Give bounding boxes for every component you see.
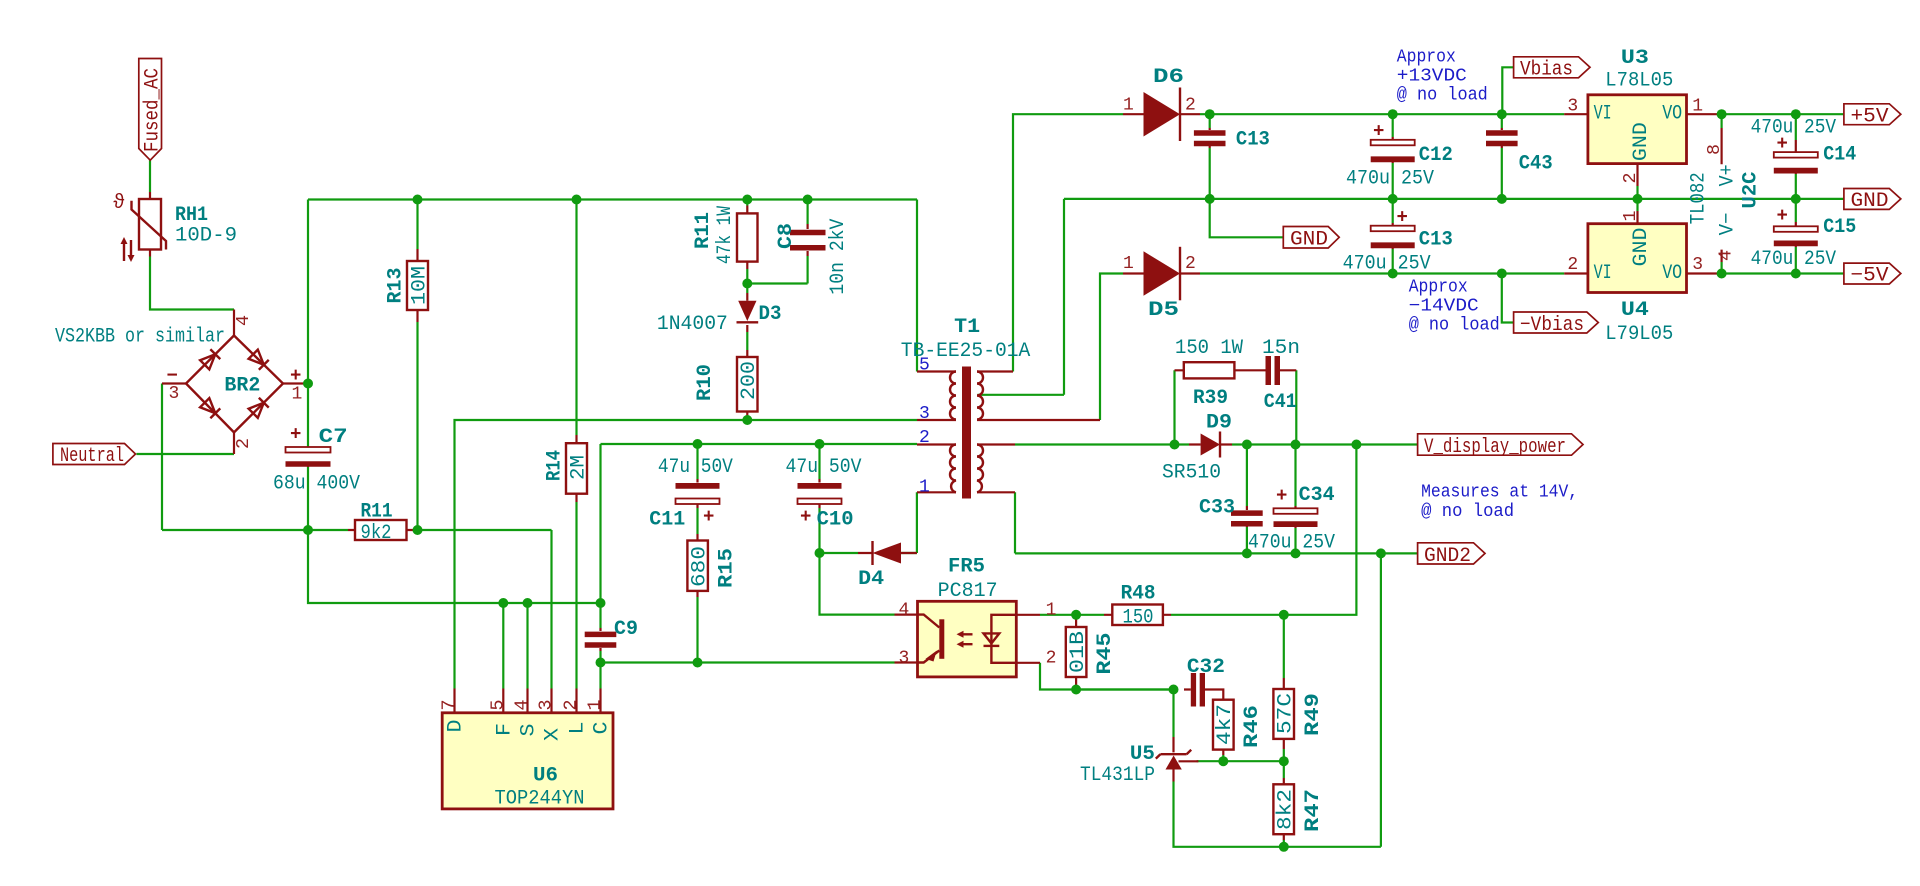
wire C33 leads xyxy=(1246,445,1248,554)
svg-text:L78L05: L78L05 xyxy=(1605,69,1673,92)
resistor R47 8k2 xyxy=(1273,778,1325,840)
resistor R13 10M xyxy=(385,249,432,322)
wire U3 GND pin to rail xyxy=(1636,186,1638,199)
capacitor C13b 470u 25V xyxy=(1343,207,1453,276)
regulator U4 L79L05 xyxy=(1564,211,1717,347)
junctions GND2 rail xyxy=(1242,548,1252,558)
svg-text:R15: R15 xyxy=(716,548,739,588)
junctions top bus xyxy=(413,195,423,205)
svg-text:R10: R10 xyxy=(694,364,717,401)
svg-text:C8: C8 xyxy=(775,223,798,249)
svg-text:TOP244YN: TOP244YN xyxy=(495,788,585,811)
svg-text:R49: R49 xyxy=(1302,693,1325,736)
wire R10 bottom to T1 pin3 row xyxy=(746,418,748,420)
svg-text:C10: C10 xyxy=(817,509,854,532)
svg-text:2: 2 xyxy=(561,700,581,711)
wire D4 node down to FR5 pin4 xyxy=(820,553,895,615)
svg-text:U6: U6 xyxy=(533,765,558,788)
resistor R39 150 1W xyxy=(1175,337,1266,410)
svg-text:1: 1 xyxy=(1692,97,1703,117)
diode D5 xyxy=(1123,247,1200,322)
svg-text:D4: D4 xyxy=(858,568,884,591)
global label GND2 xyxy=(1418,543,1485,568)
wire Vbias branch xyxy=(1502,67,1513,114)
note Approx -14VDC xyxy=(1409,278,1500,336)
svg-text:470u 25V: 470u 25V xyxy=(1343,252,1431,275)
diode D9 SR510 xyxy=(1162,412,1232,485)
wire -Vbias branch xyxy=(1502,274,1514,323)
svg-text:47k 1W: 47k 1W xyxy=(714,206,737,264)
svg-text:+: + xyxy=(1276,485,1287,507)
svg-text:2: 2 xyxy=(234,438,254,449)
svg-text:+: + xyxy=(290,365,301,387)
svg-text:+: + xyxy=(703,506,714,528)
svg-text:1N4007: 1N4007 xyxy=(657,313,728,336)
wire U2C pin8 stub xyxy=(1720,114,1722,128)
wire U6 pin F riser xyxy=(502,603,504,689)
svg-text:2: 2 xyxy=(1185,254,1196,274)
junctions GND rail xyxy=(1205,194,1215,204)
svg-text:C13: C13 xyxy=(1419,229,1453,252)
svg-text:C13: C13 xyxy=(1236,129,1270,152)
wire U2C pin4 stub xyxy=(1720,262,1722,274)
svg-text:+13VDC: +13VDC xyxy=(1397,67,1467,87)
svg-text:3: 3 xyxy=(169,384,180,404)
junctions V_display row xyxy=(1170,440,1180,450)
global label +5V xyxy=(1844,104,1901,129)
wire C9 top lead xyxy=(599,444,601,628)
capacitor C34 470u 25V xyxy=(1248,484,1335,554)
svg-text:L: L xyxy=(567,722,590,735)
wire R14 riser x=576.5 from bus to R14 and to U6 pin L xyxy=(575,200,577,689)
junctions y=603 row xyxy=(498,598,508,608)
svg-text:VO: VO xyxy=(1662,103,1682,126)
svg-text:V_display_power: V_display_power xyxy=(1424,436,1566,459)
wire T1 pin to V_display row y=444.5 xyxy=(1015,443,1418,445)
svg-text:8: 8 xyxy=(1705,144,1725,155)
global label V_display_power xyxy=(1418,434,1583,459)
svg-text:1: 1 xyxy=(1046,601,1057,621)
svg-text:2M: 2M xyxy=(568,455,591,480)
wire R39 branch riser xyxy=(1173,370,1175,444)
svg-text:−Vbias: −Vbias xyxy=(1520,314,1584,337)
svg-text:F: F xyxy=(493,723,516,736)
wire R47 top lead xyxy=(1283,761,1285,778)
svg-text:C: C xyxy=(591,722,614,735)
junction D3 node xyxy=(742,279,752,289)
svg-text:C11: C11 xyxy=(649,509,685,532)
wire T1 pin3 row y=420 and riser to U6 pin D xyxy=(455,420,918,689)
svg-text:C15: C15 xyxy=(1823,216,1856,239)
svg-text:1: 1 xyxy=(1123,254,1134,274)
wire y=662.5 row C9 to FR5 pin3 xyxy=(601,661,895,663)
svg-text:+: + xyxy=(800,506,811,528)
svg-text:01B: 01B xyxy=(1067,631,1090,673)
svg-text:PC817: PC817 xyxy=(938,580,998,603)
svg-text:R48: R48 xyxy=(1121,583,1156,606)
svg-text:D6: D6 xyxy=(1153,66,1184,89)
wire C14 leads xyxy=(1795,114,1797,199)
svg-text:Measures at 14V,: Measures at 14V, xyxy=(1421,483,1578,503)
svg-text:470u 25V: 470u 25V xyxy=(1751,117,1837,140)
wire y=603 row from C7 node to C9 xyxy=(308,530,601,603)
svg-text:C32: C32 xyxy=(1187,656,1225,679)
shunt regulator U5 TL431LP xyxy=(1080,737,1198,787)
svg-text:TL082: TL082 xyxy=(1688,172,1711,224)
svg-text:7: 7 xyxy=(440,700,460,711)
svg-text:2: 2 xyxy=(1567,255,1578,275)
svg-text:4: 4 xyxy=(899,601,910,621)
svg-text:Vbias: Vbias xyxy=(1520,59,1573,82)
wire FR5 pin2 down to y=689.5 row xyxy=(1040,663,1174,690)
wire FR5 pin1 to R48 xyxy=(1040,614,1104,616)
wire C11 leads xyxy=(696,444,698,534)
capacitor C41 15n xyxy=(1262,337,1300,414)
svg-text:4: 4 xyxy=(1717,250,1737,261)
resistor R11 47k 1W xyxy=(692,206,758,270)
wire C13b leads xyxy=(1392,199,1394,274)
wire D6 cathode to +13V rail into U3 VI xyxy=(1200,113,1564,115)
resistor R49 57C xyxy=(1273,678,1325,749)
svg-text:4: 4 xyxy=(234,315,254,326)
capacitor C9 xyxy=(585,618,638,651)
svg-text:10D-9: 10D-9 xyxy=(175,225,237,248)
capacitor C7 68u 400V xyxy=(273,424,360,496)
wire C32/TL431 cathode riser xyxy=(1172,690,1174,738)
global label Fused_AC xyxy=(139,59,165,161)
capacitor C10 47u 50V xyxy=(786,456,862,532)
wire GND mid label branch xyxy=(1210,199,1284,237)
junction R47 bottom row xyxy=(1279,842,1289,852)
svg-text:+5V: +5V xyxy=(1851,106,1889,129)
IC U6 TOP244YN xyxy=(440,689,614,811)
svg-text:1: 1 xyxy=(1123,96,1134,116)
svg-text:200: 200 xyxy=(738,361,761,400)
resistor R48 150 xyxy=(1104,583,1171,630)
svg-text:2: 2 xyxy=(919,428,930,448)
capacitor C11 47u 50V xyxy=(649,456,733,532)
svg-text:C41: C41 xyxy=(1264,391,1297,414)
svg-text:47u 50V: 47u 50V xyxy=(658,456,733,479)
svg-text:15n: 15n xyxy=(1262,337,1300,360)
wire Neutral to BR2 pin2 xyxy=(137,453,235,455)
svg-text:X: X xyxy=(542,728,565,741)
wire top primary bus y=199 xyxy=(308,198,917,200)
svg-text:S: S xyxy=(518,724,541,737)
svg-text:TB-EE25-01A: TB-EE25-01A xyxy=(901,340,1031,363)
svg-text:2: 2 xyxy=(1046,649,1057,669)
resistor R11 9k2 xyxy=(348,501,413,546)
svg-text:SR510: SR510 xyxy=(1162,461,1221,484)
capacitor C43 xyxy=(1486,128,1553,175)
wire C12 leads xyxy=(1392,114,1394,199)
svg-text:3: 3 xyxy=(919,404,930,424)
svg-text:U2C: U2C xyxy=(1740,172,1763,209)
global label -Vbias xyxy=(1514,312,1599,337)
svg-text:ϑ: ϑ xyxy=(113,192,125,215)
wire U6 pin S riser xyxy=(526,603,528,689)
svg-text:R45: R45 xyxy=(1094,633,1117,675)
transformer T1 TB-EE25-01A xyxy=(901,316,1100,499)
svg-text:4k7: 4k7 xyxy=(1214,704,1237,745)
junctions -14V rail xyxy=(1388,269,1398,279)
svg-text:@ no load: @ no load xyxy=(1409,316,1500,336)
global label Vbias xyxy=(1514,57,1590,82)
svg-text:VI: VI xyxy=(1594,103,1612,126)
svg-text:9k2: 9k2 xyxy=(361,522,392,545)
svg-text:47u 50V: 47u 50V xyxy=(786,456,862,479)
svg-text:T1: T1 xyxy=(954,316,980,339)
svg-text:470u 25V: 470u 25V xyxy=(1751,248,1837,271)
junctions -5V rail xyxy=(1717,269,1727,279)
svg-text:U3: U3 xyxy=(1621,47,1649,70)
wire bus to T1 pin5 riser xyxy=(916,200,918,372)
svg-text:3: 3 xyxy=(537,700,557,711)
svg-text:C7: C7 xyxy=(319,426,348,449)
capacitor C12 470u 25V xyxy=(1346,121,1453,191)
wire riser to U6 pin X xyxy=(550,530,552,689)
junctions T1 pin2 row xyxy=(693,439,703,449)
wire R15 bottom lead xyxy=(696,597,698,663)
junction R10 bottom xyxy=(742,415,752,425)
svg-text:D: D xyxy=(445,720,468,733)
svg-text:D3: D3 xyxy=(759,303,782,326)
global label GND mid xyxy=(1283,227,1339,252)
svg-text:@ no load: @ no load xyxy=(1397,86,1488,106)
svg-text:D9: D9 xyxy=(1206,412,1232,435)
svg-text:V+: V+ xyxy=(1717,164,1740,186)
svg-text:R13: R13 xyxy=(385,268,408,304)
svg-text:@ no load: @ no load xyxy=(1421,502,1514,522)
wire T1 pin2 row y=444 xyxy=(601,443,918,445)
svg-text:470u 25V: 470u 25V xyxy=(1346,168,1434,191)
capacitor C14 470u 25V xyxy=(1751,117,1857,174)
global label Neutral xyxy=(53,444,136,469)
wire R11 9k2 row y=530 xyxy=(162,529,552,531)
svg-text:5: 5 xyxy=(488,700,508,711)
svg-text:2: 2 xyxy=(1621,173,1641,184)
svg-text:1: 1 xyxy=(1621,211,1641,222)
junctions TL431 ref row xyxy=(1218,756,1228,766)
svg-text:C12: C12 xyxy=(1419,144,1453,167)
global label -5V xyxy=(1844,263,1901,288)
wire T1 mid tap riser to GND rail xyxy=(978,199,1065,395)
svg-text:10n 2kV: 10n 2kV xyxy=(827,219,850,295)
capacitor C13a xyxy=(1194,128,1270,152)
svg-text:1: 1 xyxy=(919,478,930,498)
svg-text:GND2: GND2 xyxy=(1424,545,1471,568)
bridge rectifier BR2 xyxy=(55,310,304,455)
wire BR2 pin3 down to R11 row xyxy=(161,384,163,531)
diode D6 xyxy=(1123,66,1200,141)
wire Fused_AC to RH1 xyxy=(149,160,151,192)
svg-text:C33: C33 xyxy=(1199,496,1235,519)
junctions +5V rail xyxy=(1717,109,1727,119)
thermistor RH1 xyxy=(113,192,237,262)
svg-text:+: + xyxy=(290,424,301,446)
wire -5V rail xyxy=(1718,272,1844,274)
svg-text:GND: GND xyxy=(1290,229,1328,252)
svg-text:C9: C9 xyxy=(614,618,638,641)
wire C41 to C34 riser xyxy=(1295,370,1297,444)
svg-text:R47: R47 xyxy=(1302,789,1325,832)
resistor R46 4k7 xyxy=(1213,700,1264,755)
junctions +13V rail xyxy=(1205,109,1215,119)
svg-text:Fused_AC: Fused_AC xyxy=(142,68,165,152)
svg-text:VO: VO xyxy=(1662,262,1682,285)
svg-text:U5: U5 xyxy=(1130,743,1155,766)
wire C9 bottom lead and U6 pin C riser xyxy=(599,651,601,689)
svg-text:+: + xyxy=(1777,205,1788,227)
wire +5V rail xyxy=(1718,113,1844,115)
svg-text:L79L05: L79L05 xyxy=(1605,323,1673,346)
wire C8 top lead xyxy=(806,200,808,225)
junction D4 node xyxy=(815,548,825,558)
wire C34 leads xyxy=(1294,445,1296,554)
wire R48 to R49 node xyxy=(1171,614,1284,616)
wire R11 47k bottom to D3 node xyxy=(746,269,748,293)
svg-text:4: 4 xyxy=(513,700,533,711)
svg-text:GND: GND xyxy=(1630,122,1653,161)
capacitor C33 xyxy=(1199,496,1263,527)
wire T1 lower tap to D5 xyxy=(1100,274,1123,421)
svg-text:−14VDC: −14VDC xyxy=(1409,297,1479,317)
svg-text:D5: D5 xyxy=(1148,299,1179,322)
wire GND2 riser from bottom row xyxy=(1380,553,1382,846)
resistor R14 2M xyxy=(544,435,591,502)
wire R46 bottom lead xyxy=(1222,755,1224,761)
svg-text:R11: R11 xyxy=(361,501,393,524)
svg-text:C34: C34 xyxy=(1299,484,1335,507)
junctions R45 bottom row xyxy=(1071,685,1081,695)
svg-text:R14: R14 xyxy=(544,450,567,481)
svg-text:−: − xyxy=(167,365,178,387)
svg-text:150: 150 xyxy=(1123,607,1154,630)
wire GND rail y=199 xyxy=(1064,198,1844,200)
wire D3 node to C8 bottom xyxy=(747,256,807,284)
note Approx +13VDC xyxy=(1397,48,1488,106)
wire R49 bottom lead xyxy=(1283,749,1285,761)
svg-text:57C: 57C xyxy=(1275,693,1298,734)
wire T1 top-right coil to D6 xyxy=(1013,114,1123,371)
svg-text:+: + xyxy=(1397,207,1408,229)
svg-text:R39: R39 xyxy=(1193,387,1228,410)
capacitor C8 10n 2kV xyxy=(775,219,850,295)
svg-text:68u 400V: 68u 400V xyxy=(273,473,360,496)
wire C15 leads xyxy=(1795,199,1797,274)
wire R11 47k top lead xyxy=(746,200,748,206)
resistor R45 01B xyxy=(1066,615,1117,690)
svg-text:10M: 10M xyxy=(409,266,432,305)
svg-text:U4: U4 xyxy=(1621,299,1649,322)
wire BR2 pin1 riser / top bus left corner / C7 leads xyxy=(307,200,309,531)
junction BR2 out xyxy=(303,379,313,389)
svg-text:Neutral: Neutral xyxy=(60,445,124,468)
wire D5 cathode to -14V rail into U4 VI xyxy=(1200,272,1564,274)
wire T1 bottom to GND2 rail xyxy=(1015,492,1418,553)
resistor R10 200 xyxy=(694,350,761,418)
svg-text:Approx: Approx xyxy=(1397,48,1456,68)
svg-text:R11: R11 xyxy=(692,212,715,249)
wire R49 top lead xyxy=(1283,615,1285,678)
wire R45 bottom node row xyxy=(1076,688,1173,690)
global label GND right xyxy=(1844,189,1901,214)
wire D4 row y=553 and riser to T1 pin1 xyxy=(820,492,917,553)
diode D4 xyxy=(858,541,917,591)
op-amp U2C TL082 power pins xyxy=(1688,128,1763,262)
junctions R48 row xyxy=(1071,610,1081,620)
wire RH1 to BR2 pin4 xyxy=(150,257,234,310)
regulator U3 L78L05 xyxy=(1564,47,1717,186)
junctions R11 9k2 row xyxy=(303,525,313,535)
svg-text:BR2: BR2 xyxy=(224,375,260,398)
svg-text:FR5: FR5 xyxy=(948,555,985,578)
svg-text:3: 3 xyxy=(1567,97,1578,117)
svg-text:−5V: −5V xyxy=(1851,265,1889,288)
svg-text:1: 1 xyxy=(292,385,303,405)
svg-text:8k2: 8k2 xyxy=(1275,789,1298,830)
wire V_display branch to R48 row xyxy=(1284,445,1357,615)
svg-text:VI: VI xyxy=(1594,262,1612,285)
resistor R15 680 xyxy=(687,534,738,597)
svg-text:R46: R46 xyxy=(1241,705,1264,748)
wire C13a leads xyxy=(1209,114,1211,199)
capacitor C15 470u 25V xyxy=(1751,205,1857,271)
wire R47 bottom / TL431 anode bottom row xyxy=(1174,782,1381,847)
svg-text:GND: GND xyxy=(1851,190,1889,213)
wire C10 leads xyxy=(818,444,820,553)
wire D3 to R10 xyxy=(746,332,748,350)
optocoupler FR5 PC817 xyxy=(895,555,1057,677)
capacitor C32 xyxy=(1184,656,1225,707)
svg-text:Approx: Approx xyxy=(1409,278,1468,298)
svg-text:3: 3 xyxy=(899,649,910,669)
wire U4 GND pin to rail xyxy=(1636,199,1638,211)
svg-text:C14: C14 xyxy=(1823,144,1856,167)
svg-text:TL431LP: TL431LP xyxy=(1080,764,1155,787)
svg-text:1: 1 xyxy=(586,700,606,711)
wire TL431 ref row y=761.2 xyxy=(1197,760,1284,762)
svg-text:VS2KBB or similar: VS2KBB or similar xyxy=(55,326,225,349)
svg-text:2: 2 xyxy=(1185,96,1196,116)
junctions y=662.5 row xyxy=(596,658,606,668)
wire C43 leads xyxy=(1501,114,1503,199)
svg-text:3: 3 xyxy=(1692,255,1703,275)
svg-text:V−: V− xyxy=(1717,212,1740,235)
diode D3 1N4007 xyxy=(657,293,782,336)
svg-text:GND: GND xyxy=(1630,228,1653,267)
svg-text:680: 680 xyxy=(689,546,712,587)
wire R13 leads x=417 xyxy=(416,200,418,531)
svg-text:+: + xyxy=(1373,121,1384,143)
svg-text:150 1W: 150 1W xyxy=(1175,337,1243,360)
svg-text:C43: C43 xyxy=(1519,152,1553,175)
